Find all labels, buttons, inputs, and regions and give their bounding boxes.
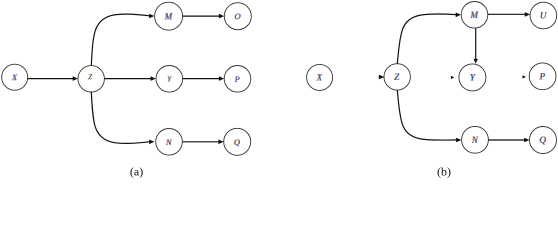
node Y (b): [459, 64, 486, 91]
node Z (b): [384, 64, 410, 90]
edge Z->N curved (b): [397, 90, 461, 142]
svg-text:Q: Q: [540, 135, 547, 145]
node P (b): [529, 63, 556, 90]
svg-text:N: N: [471, 135, 479, 145]
node Y (a): [156, 66, 183, 93]
svg-text:P: P: [234, 75, 240, 84]
svg-text:Z: Z: [88, 73, 92, 81]
node Q (a): [224, 128, 251, 155]
svg-text:(b): (b): [437, 165, 451, 179]
node N (a): [156, 129, 183, 156]
edge Z->M curved (b): [397, 13, 461, 64]
svg-text:M: M: [164, 11, 173, 21]
node Q (b): [530, 127, 557, 154]
edge X->Z (a): [28, 76, 78, 81]
edge M->U (b): [488, 12, 530, 17]
svg-text:X: X: [11, 72, 18, 82]
edge M->O (a): [183, 14, 224, 19]
node M (a): [155, 2, 183, 30]
node X (a): [2, 64, 28, 90]
node X (b): [307, 64, 333, 90]
svg-text:O: O: [235, 11, 241, 21]
edge Z->N curved (a): [91, 92, 154, 144]
arrow stub into Y (b): [451, 76, 454, 79]
edge N->Q (a): [183, 140, 224, 145]
node Z (a): [78, 66, 104, 92]
svg-text:U: U: [540, 11, 547, 21]
arrow stub into Z (b): [379, 75, 385, 80]
svg-text:P: P: [539, 71, 546, 81]
svg-text:(a): (a): [130, 165, 143, 179]
node O (a): [224, 3, 251, 30]
edge Y->P (a): [183, 76, 224, 81]
edge Z->Y (a): [105, 76, 156, 81]
edge M->Y vertical (b): [474, 28, 478, 64]
edge N->Q (b): [488, 138, 529, 143]
node M (b): [461, 2, 488, 29]
node N (b): [462, 126, 489, 153]
node U (b): [530, 2, 557, 29]
svg-text:X: X: [316, 72, 323, 82]
svg-text:M: M: [470, 10, 479, 20]
svg-text:Q: Q: [234, 137, 240, 147]
edge Z->M curved (a): [91, 14, 154, 66]
arrow stub into P (b): [523, 75, 526, 78]
node P (a): [224, 66, 251, 93]
